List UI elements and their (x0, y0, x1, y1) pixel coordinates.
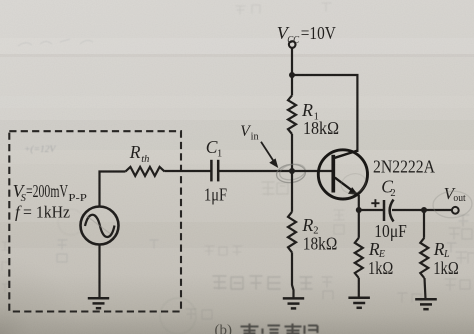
node emitter junction (356, 207, 362, 213)
capacitor C2 (384, 200, 394, 222)
resistor R1 (288, 95, 296, 134)
wire emitter node to RE (358, 210, 360, 238)
wire source-bottom to ground (98, 245, 100, 299)
source dashed box (9, 131, 181, 311)
wire emitter node to C2 (359, 209, 384, 211)
wire junction to collector (292, 75, 357, 152)
capacitor C1 (211, 160, 218, 182)
wire junction to R1 (291, 75, 293, 95)
wire Rth to C1 (165, 170, 211, 172)
voltage source VS (81, 207, 119, 245)
caption bottom (215, 323, 233, 334)
pencil ellipse annotation (276, 162, 307, 184)
faint handwriting top-left (18, 39, 93, 46)
terminal Vout (452, 207, 459, 214)
ground (RL) (415, 299, 437, 309)
wire base node to transistor (292, 170, 334, 172)
caption character tops (241, 324, 318, 334)
faint circle bleed bottom-left (160, 298, 196, 334)
wire R1 to base node (291, 134, 293, 171)
wire out junction to RL (423, 210, 425, 238)
ground (RE) (348, 298, 370, 308)
ground (R2) (283, 298, 304, 308)
pencil line in source (86, 216, 110, 234)
pencil ellipse around Vout (432, 190, 473, 219)
wire RL to ground (425, 278, 426, 299)
wire source-top to Rth (100, 172, 126, 207)
node VCC junction (289, 72, 295, 78)
wire base node to R2 (291, 171, 293, 212)
wire R2 to ground (292, 252, 294, 298)
wire C1 to base node (219, 170, 293, 172)
wire C2 to out junction (392, 209, 424, 211)
paper banding (0, 38, 474, 164)
resistor R2 (288, 212, 296, 253)
emitter arrowhead (348, 187, 357, 194)
wire VCC to junction (291, 48, 293, 75)
arrow Vin (261, 142, 278, 168)
ground (source) (88, 298, 109, 308)
resistor RL (420, 238, 428, 278)
resistor Rth (126, 167, 165, 176)
pencil smudge near transistor (339, 171, 369, 197)
faint circle bleed left of source (58, 209, 84, 235)
transistor Q1 2N2222A (318, 150, 367, 199)
wire emitter to node (358, 195, 360, 210)
node output junction (421, 207, 427, 213)
resistor RE (355, 238, 363, 278)
wire to Vout terminal (424, 209, 452, 211)
node base junction (289, 168, 295, 174)
wire RE to ground (358, 278, 360, 298)
plus sign C2 (371, 199, 379, 207)
VCC terminal (289, 41, 296, 48)
